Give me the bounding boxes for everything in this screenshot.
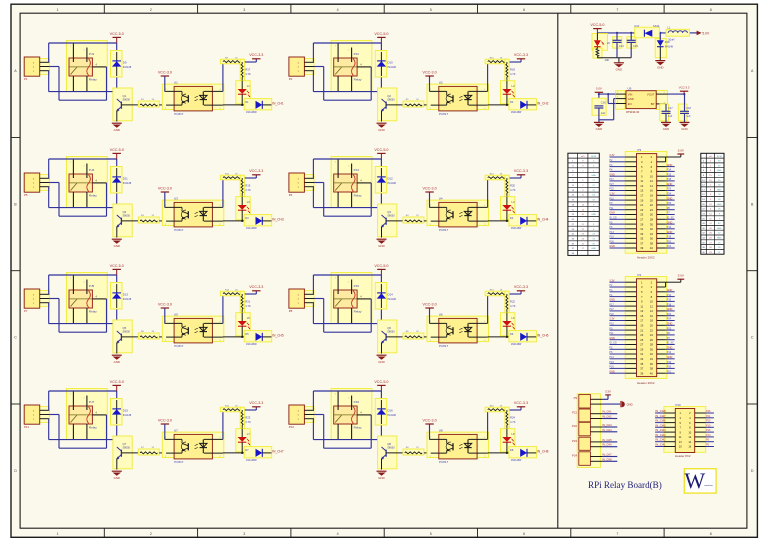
inductor L1 10uH: [666, 25, 689, 41]
svg-text:25: 25: [640, 338, 643, 342]
svg-text:GND: GND: [114, 244, 120, 248]
svg-text:GND: GND: [609, 370, 615, 373]
svg-text:PC817: PC817: [174, 460, 184, 464]
svg-text:P16: P16: [667, 361, 672, 364]
diode D9 IN4148: [111, 51, 132, 78]
LED L4: [501, 197, 516, 221]
diode D18 IN4148: [655, 33, 673, 61]
svg-text:P19: P19: [609, 236, 614, 239]
svg-text:22: 22: [650, 328, 653, 332]
relay PJ5: [66, 273, 107, 324]
power VCC-5.0: [374, 148, 388, 159]
svg-text:12: 12: [650, 304, 653, 308]
svg-text:1: 1: [335, 277, 336, 279]
svg-text:18: 18: [650, 194, 653, 198]
connector P2 (relay terminal): [289, 57, 314, 81]
power VCC-3.0: [158, 186, 172, 207]
svg-text:GND: GND: [591, 214, 596, 216]
svg-text:D6: D6: [510, 332, 514, 336]
wire: P9 pin1 to 3.3V: [603, 389, 611, 399]
svg-text:SC: SC: [718, 223, 721, 225]
svg-text:IN_CH4: IN_CH4: [537, 218, 549, 222]
svg-text:5.0V: 5.0V: [678, 274, 684, 278]
power VCC-3.0: [158, 302, 172, 323]
wire: terminal pin 3 to transistor collector rail: [49, 71, 117, 92]
relay PJ7: [66, 389, 107, 440]
svg-text:36: 36: [650, 362, 653, 366]
svg-text:IN_CH8: IN_CH8: [655, 409, 666, 413]
wire: opto anode up to resistor: [487, 62, 489, 91]
svg-text:IN_CH2: IN_CH2: [602, 415, 612, 419]
pin 35 wire, net P19: [609, 361, 636, 364]
svg-text:31: 31: [640, 352, 643, 356]
resistor R19 4.7K: [240, 175, 251, 197]
transistor Q2 S8050: [378, 88, 403, 122]
optocoupler U6 PC817: [427, 312, 489, 347]
pin 21 wire, net P9: [609, 202, 636, 205]
svg-text:L3: L3: [247, 200, 250, 204]
P10 pin 11 wire, net IN_CH3: [655, 433, 675, 437]
svg-text:14: 14: [650, 184, 653, 188]
capacitor C17 1uF (BP): [660, 104, 673, 123]
svg-text:2: 2: [150, 532, 152, 536]
power VCC-3.0: [423, 186, 437, 207]
pin 3 wire, net P2: [609, 284, 636, 287]
pin 33 wire, net P13: [609, 231, 636, 234]
wire and power VCC-3.3: [241, 285, 263, 295]
relay PJ2: [331, 41, 372, 92]
svg-text:1: 1: [70, 393, 71, 395]
pin 26 wire, net P7: [657, 212, 675, 215]
svg-text:4.7K: 4.7K: [510, 420, 516, 424]
power VCC-5.0: [590, 23, 604, 33]
svg-text:VCC-5.0: VCC-5.0: [374, 264, 388, 268]
svg-text:IN_CH3: IN_CH3: [272, 218, 284, 222]
svg-text:P25: P25: [667, 327, 672, 330]
svg-text:VCC-5.0: VCC-5.0: [590, 23, 604, 27]
svg-text:GND: GND: [717, 238, 722, 240]
diode D7 1N4148W: [244, 447, 272, 462]
wire and power VCC-3.3: [241, 53, 263, 63]
resistor R13 1K: [220, 289, 243, 295]
svg-text:EN: EN: [628, 102, 632, 106]
svg-text:15: 15: [640, 189, 643, 193]
wire: VCC rail down through diode to collector: [116, 275, 118, 331]
pin 24 wire, net P8: [657, 207, 675, 210]
svg-text:10K: 10K: [605, 58, 610, 62]
svg-text:GND: GND: [378, 128, 384, 132]
diode D1 1N4148W: [244, 99, 272, 114]
svg-text:P21: P21: [667, 245, 672, 248]
svg-text:37: 37: [640, 241, 643, 245]
svg-text:C16: C16: [601, 100, 606, 104]
LED L9 power indicator: [592, 33, 610, 50]
wire: terminal pin 1 to relay top rail: [49, 159, 117, 178]
svg-text:P16: P16: [706, 429, 711, 432]
svg-text:VCC-3.3: VCC-3.3: [514, 401, 528, 405]
pin 38 wire, net P20: [657, 240, 675, 243]
svg-text:GND: GND: [667, 347, 673, 350]
LED L1: [236, 81, 251, 105]
wire: opto anode up to resistor: [487, 178, 489, 207]
svg-text:D: D: [14, 469, 17, 473]
svg-text:39: 39: [640, 246, 643, 250]
svg-text:C15: C15: [633, 44, 638, 48]
svg-text:2: 2: [84, 166, 85, 168]
svg-text:23: 23: [640, 333, 643, 337]
margin row ticks and letters: [11, 69, 757, 473]
svg-text:21: 21: [640, 203, 643, 207]
svg-text:1: 1: [220, 321, 221, 323]
svg-text:GND: GND: [667, 289, 673, 292]
svg-text:4.7K: 4.7K: [245, 72, 251, 76]
svg-text:VCC-3.3: VCC-3.3: [514, 53, 528, 57]
regulator U9 RT9193-33: [616, 87, 668, 114]
svg-text:IN_CH8: IN_CH8: [602, 457, 612, 461]
svg-text:P12: P12: [667, 226, 672, 229]
svg-text:27: 27: [640, 343, 643, 347]
svg-text:1: 1: [484, 205, 485, 207]
svg-text:P23: P23: [667, 188, 672, 191]
power VCC-5.0: [110, 380, 124, 391]
svg-text:3.3V: 3.3V: [609, 154, 614, 157]
svg-text:17: 17: [640, 194, 643, 198]
svg-text:D1: D1: [245, 100, 249, 104]
capacitor C16 1uF: [592, 98, 606, 122]
svg-text:GND: GND: [667, 197, 673, 200]
pin 29 wire, net P5: [609, 347, 636, 350]
svg-text:VOUT: VOUT: [647, 92, 655, 96]
svg-text:PC817: PC817: [174, 112, 184, 116]
svg-text:Relay: Relay: [89, 193, 97, 197]
resistor R17 4.7K: [240, 59, 251, 80]
svg-text:P18: P18: [667, 303, 672, 306]
svg-text:W: W: [684, 468, 705, 493]
resistor R6 1K: [403, 331, 424, 339]
pin 23 wire, net P11: [609, 207, 636, 210]
pin 33 wire, net P13: [609, 356, 636, 359]
pin 9 wire, net GND: [609, 173, 636, 176]
svg-text:Header 20X2: Header 20X2: [637, 381, 655, 385]
pin 26 wire, net P7: [657, 337, 675, 340]
svg-text:25: 25: [640, 213, 643, 217]
svg-text:14: 14: [650, 309, 653, 313]
pin 40 wire, net P21: [657, 370, 675, 373]
svg-text:21: 21: [640, 328, 643, 332]
pin 20 wire, net GND: [657, 197, 675, 200]
relay PJ6: [331, 273, 372, 324]
svg-text:29: 29: [640, 348, 643, 352]
pin 39 wire, net GND: [609, 370, 636, 373]
svg-text:11: 11: [640, 179, 643, 183]
wire: terminal pin 1 to relay top rail: [49, 275, 117, 294]
pin 13 wire, net P27: [609, 183, 636, 186]
svg-text:3.3V: 3.3V: [609, 279, 614, 282]
wire and power VCC-3.3: [506, 401, 528, 411]
svg-text:1uF: 1uF: [668, 115, 673, 118]
svg-text:GND: GND: [114, 360, 120, 364]
svg-text:4: 4: [337, 8, 339, 12]
svg-text:4.7K: 4.7K: [510, 188, 516, 192]
svg-text:P23: P23: [572, 439, 577, 443]
wire: terminal pin 2 to relay contact pin 4: [49, 415, 106, 449]
diode D13 IN4148: [111, 283, 132, 310]
svg-text:R21: R21: [245, 300, 250, 304]
wire: resistor to optocoupler: [159, 452, 174, 454]
svg-text:PC817: PC817: [439, 344, 449, 348]
pin 40 wire, net P21: [657, 245, 675, 248]
diode D16 IN4148: [375, 399, 396, 426]
svg-text:BCM: BCM: [591, 156, 596, 158]
relay PJ1: [66, 41, 107, 92]
pin 25 wire, net GND: [609, 212, 636, 215]
P10 pin 8 wire, net P19: [695, 424, 714, 427]
svg-text:2: 2: [348, 50, 349, 52]
P10 pin 4 wire, net P21: [695, 415, 714, 418]
wire: terminal pin 2 to relay contact pin 4: [314, 67, 371, 101]
svg-text:P13: P13: [609, 231, 614, 234]
svg-text:PC817: PC817: [174, 344, 184, 348]
svg-text:GND: GND: [681, 127, 687, 131]
power VCC-3.0: [158, 418, 172, 439]
svg-text:VCC-3.3: VCC-3.3: [249, 401, 263, 405]
wire: opto cathode line: [488, 452, 521, 454]
wire IN_CH7 from jumper: [602, 453, 617, 457]
wire IN_CH4 from jumper: [602, 428, 617, 432]
svg-text:R17: R17: [245, 68, 250, 72]
svg-text:IN_CH1: IN_CH1: [272, 102, 284, 106]
pin 10 wire, net P15: [657, 299, 675, 302]
wire: resistor to optocoupler: [159, 220, 174, 222]
svg-text:2: 2: [220, 108, 221, 110]
svg-text:VCC-3.0: VCC-3.0: [423, 418, 437, 422]
pin 8 wire, net P14: [657, 169, 675, 172]
svg-text:SS14: SS14: [653, 24, 660, 28]
svg-text:1N4148W: 1N4148W: [246, 111, 257, 114]
pin 7 wire, net P4: [609, 294, 636, 297]
svg-text:IN_CH6: IN_CH6: [655, 419, 666, 423]
svg-text:1: 1: [220, 437, 221, 439]
wire and power VCC-3.3: [506, 285, 528, 295]
svg-text:GND: GND: [667, 183, 673, 186]
svg-text:S8050: S8050: [123, 213, 131, 217]
svg-text:RT9193-33: RT9193-33: [626, 110, 639, 114]
svg-text:2: 2: [348, 282, 349, 284]
pin 18 wire, net P24: [657, 193, 675, 196]
svg-text:5.0V: 5.0V: [702, 31, 710, 35]
svg-text:Relay: Relay: [354, 77, 362, 81]
svg-text:ID_SD: ID_SD: [609, 342, 617, 345]
pin 27 wire, net ID_SD: [609, 342, 636, 345]
wire: resistor to optocoupler: [424, 220, 439, 222]
svg-text:P14: P14: [667, 294, 672, 297]
svg-text:P20: P20: [667, 240, 672, 243]
svg-text:18: 18: [650, 319, 653, 323]
svg-text:3: 3: [165, 340, 166, 342]
wire and power VCC-3.3: [506, 169, 528, 179]
wire IN_CH8 from jumper: [602, 457, 617, 461]
ground under transistor: [377, 355, 387, 364]
pin 15 wire, net P22: [609, 188, 636, 191]
svg-text:5.0V: 5.0V: [596, 87, 602, 91]
wire: GND pin route: [599, 99, 616, 120]
optocoupler U1 PC817: [162, 80, 224, 115]
resistor R11 1K: [220, 173, 243, 179]
resistor R21 4.7K: [240, 291, 251, 313]
svg-text:P27: P27: [609, 183, 614, 186]
resistor R7 1K: [138, 447, 159, 455]
svg-text:26: 26: [650, 213, 653, 217]
sheet divider line: [557, 13, 559, 528]
svg-text:P27: P27: [609, 308, 614, 311]
transistor Q6 S8050: [378, 320, 403, 354]
svg-text:1: 1: [220, 89, 221, 91]
svg-text:Relay: Relay: [354, 193, 362, 197]
resistor R14 1K: [485, 289, 508, 295]
pin 1 wire, net 3.3V: [609, 154, 636, 157]
svg-text:PJ6: PJ6: [354, 284, 360, 288]
svg-text:S8050: S8050: [387, 97, 395, 101]
pin 37 wire, net P26: [609, 240, 636, 243]
svg-text:10: 10: [650, 300, 653, 304]
wire IN_CH3 from jumper: [602, 423, 617, 427]
wire: 5V rail: [597, 32, 697, 34]
svg-text:P22: P22: [572, 424, 577, 428]
svg-text:4.7K: 4.7K: [510, 304, 516, 308]
svg-text:GND: GND: [717, 228, 722, 230]
pin 24 wire, net P8: [657, 332, 675, 335]
ground under transistor: [112, 123, 122, 132]
svg-text:3: 3: [165, 224, 166, 226]
svg-text:P21: P21: [667, 370, 672, 373]
wire: terminal pin 2 to relay contact pin 4: [314, 299, 371, 333]
P10 pin 7 wire, net IN_CH5: [655, 423, 675, 427]
wire: EN tie: [608, 94, 615, 103]
wire and power VCC-3.3: [241, 401, 263, 411]
pin 14 wire, net GND: [657, 183, 675, 186]
resistor R15 1K: [220, 405, 243, 411]
wire: P9 pin2 to GND: [603, 401, 633, 407]
svg-text:L7: L7: [247, 432, 250, 436]
svg-text:33: 33: [640, 357, 643, 361]
power VCC-3.0: [423, 302, 437, 323]
svg-text:4.7K: 4.7K: [245, 188, 251, 192]
pin 37 wire, net P26: [609, 366, 636, 369]
svg-text:7: 7: [616, 8, 618, 12]
svg-text:VCC-3.0: VCC-3.0: [158, 70, 172, 74]
transistor Q5 S8050: [113, 320, 138, 354]
svg-text:P26: P26: [706, 410, 711, 413]
wire: VOUT rail: [668, 93, 686, 95]
svg-text:U7: U7: [174, 428, 178, 432]
pin 6 wire, net GND: [657, 289, 675, 292]
wire: opto cathode line: [488, 220, 521, 222]
header P4 Header 20X2: [625, 273, 667, 385]
wire: terminal pin 3 to transistor collector rail: [49, 419, 117, 440]
svg-text:PJ7: PJ7: [89, 400, 95, 404]
resistor R33 10K: [593, 47, 609, 63]
svg-text:30: 30: [650, 222, 653, 226]
svg-text:2: 2: [348, 166, 349, 168]
svg-text:26: 26: [650, 338, 653, 342]
svg-text:P12: P12: [667, 351, 672, 354]
svg-text:1N4148W: 1N4148W: [511, 111, 522, 114]
svg-text:VCC-3.0: VCC-3.0: [158, 302, 172, 306]
ground (C17): [661, 122, 671, 131]
wire: terminal pin 1 to relay top rail: [313, 275, 381, 294]
svg-text:P2: P2: [289, 77, 293, 81]
svg-text:S8050: S8050: [123, 445, 131, 449]
svg-text:2: 2: [220, 456, 221, 458]
pin 28 wire, net ID_SC: [657, 342, 675, 345]
svg-text:GND: GND: [667, 231, 673, 234]
svg-text:GND: GND: [114, 128, 120, 132]
svg-text:GND: GND: [717, 189, 722, 191]
svg-text:C17: C17: [668, 107, 673, 110]
svg-text:10uH: 10uH: [668, 38, 674, 42]
svg-text:4.7K: 4.7K: [245, 304, 251, 308]
svg-text:2: 2: [484, 108, 485, 110]
svg-text:P4: P4: [638, 273, 642, 277]
wire: terminal pin 3 to transistor collector rail: [313, 187, 381, 208]
pin 22 wire, net P25: [657, 202, 675, 205]
resistor R23 4.7K: [240, 407, 251, 429]
svg-text:1: 1: [484, 89, 485, 91]
capacitor C18 1uF: [678, 94, 691, 122]
svg-text:2: 2: [484, 224, 485, 226]
pin 32 wire, net P12: [657, 351, 675, 354]
svg-text:D15: D15: [123, 408, 129, 412]
svg-text:VCC-3.0: VCC-3.0: [423, 302, 437, 306]
resistor R22 4.7K: [505, 291, 516, 313]
svg-text:2: 2: [484, 456, 485, 458]
svg-text:U8: U8: [439, 428, 443, 432]
svg-text:U4: U4: [439, 196, 443, 200]
svg-text:wPi: wPi: [709, 156, 713, 158]
header P3 Header 20X2: [625, 148, 667, 260]
resistor R10 1K: [485, 57, 508, 63]
pin 29 wire, net P5: [609, 221, 636, 224]
svg-text:IN_CH2: IN_CH2: [537, 102, 549, 106]
transistor Q4 S8050: [378, 204, 403, 238]
svg-text:Relay: Relay: [354, 309, 362, 313]
ground (C16): [594, 122, 604, 131]
svg-text:P5: P5: [24, 193, 28, 197]
svg-text:IN4148: IN4148: [123, 65, 132, 69]
svg-text:GND: GND: [663, 127, 669, 131]
wire: resistor to optocoupler: [424, 452, 439, 454]
ground under transistor: [377, 471, 387, 480]
Waveshare logo: [684, 468, 716, 493]
diode D12 IN4148: [375, 167, 396, 194]
selection box: [577, 394, 600, 468]
svg-text:28: 28: [650, 343, 653, 347]
connector P9: [574, 395, 603, 408]
resistor R16 1K: [485, 405, 508, 411]
svg-text:IN_CH3: IN_CH3: [655, 433, 666, 437]
svg-text:VCC-3.3: VCC-3.3: [249, 169, 263, 173]
P10 pin 12 wire, net P13: [695, 434, 714, 437]
svg-text:1: 1: [70, 161, 71, 163]
P10 pin 9 wire, net IN_CH4: [655, 428, 675, 432]
svg-text:D17: D17: [635, 24, 640, 28]
svg-text:P10: P10: [676, 403, 682, 407]
relay PJ3: [66, 157, 107, 208]
pin 34 wire, net GND: [657, 356, 675, 359]
wire: bottom node: [597, 58, 631, 63]
svg-text:P6: P6: [289, 193, 293, 197]
svg-text:Relay: Relay: [354, 425, 362, 429]
